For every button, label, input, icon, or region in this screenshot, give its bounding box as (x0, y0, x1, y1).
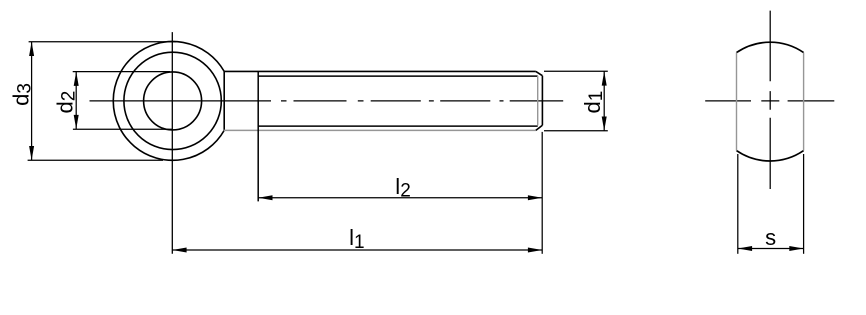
d2 dimension line (75, 72, 77, 130)
horizontal centerline (main view axis, dash-dot) (90, 100, 564, 102)
l1 dimension line (172, 249, 542, 251)
vertical centerline of eye (extends down as l1 extension line) (171, 32, 173, 254)
side view bottom arc (737, 151, 804, 161)
eye middle circle (ring face edge) (124, 52, 221, 149)
s arrow left (738, 246, 752, 251)
d2 extension line bottom (73, 128, 172, 130)
side view top arc (737, 42, 804, 52)
d1 extension line top (544, 70, 608, 72)
d3 dimension line (31, 42, 33, 161)
d3 arrow down (29, 146, 34, 160)
l2 dimension line (258, 197, 542, 199)
d1 arrow up (602, 71, 607, 85)
side view horizontal centerline (705, 100, 834, 102)
d1 arrow down (602, 117, 607, 131)
d2 arrow up (74, 72, 79, 86)
svg-text:s: s (765, 225, 776, 250)
bolt end face (541, 76, 543, 126)
d3 extension line top (29, 41, 176, 43)
l2 arrow right (528, 195, 542, 200)
l2 arrow left (258, 195, 272, 200)
thread start line (extends down as l2 extension line) (257, 71, 259, 201)
chamfer edge (gray) (537, 76, 539, 126)
s extension line right (803, 154, 805, 254)
l1 right extension line (below bolt end) (541, 132, 543, 254)
shank top outline (major diameter) (224, 70, 536, 72)
eye inner circle (hole d2) (144, 72, 202, 130)
side view left edge (gray) (736, 53, 738, 151)
d1 extension line bottom (544, 130, 608, 132)
l1 arrow left (172, 248, 186, 253)
d2 arrow down (74, 115, 79, 129)
d2 extension line top (73, 71, 170, 73)
s arrow right (789, 246, 803, 251)
side view right edge (gray) (803, 53, 805, 151)
l1 arrow right (528, 248, 542, 253)
d1 dimension line (603, 71, 605, 131)
side view vertical centerline (769, 11, 771, 189)
eye outer circle (d3), clipped at shank junction (113, 42, 224, 161)
d3 arrow up (29, 42, 34, 56)
chamfer top diagonal (536, 71, 543, 75)
head/shank junction line (223, 71, 225, 130)
shank bottom outline (major diameter, gray) (224, 129, 536, 131)
s dimension line (738, 248, 804, 250)
thread minor diameter line bottom (258, 125, 538, 127)
d3 extension line bottom (28, 159, 163, 161)
chamfer bottom diagonal (536, 125, 543, 130)
s extension line left (737, 154, 739, 254)
thread minor diameter line top (258, 75, 538, 77)
